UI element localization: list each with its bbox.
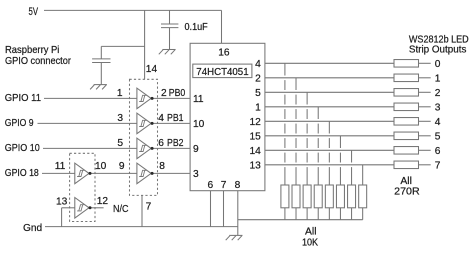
svg-text:7: 7 — [221, 180, 227, 191]
svg-text:12: 12 — [97, 196, 109, 207]
svg-text:5V: 5V — [29, 6, 39, 18]
svg-text:GPIO connector: GPIO connector — [5, 56, 71, 67]
svg-text:5: 5 — [255, 88, 261, 99]
svg-text:8: 8 — [235, 180, 241, 191]
svg-text:PB1: PB1 — [167, 113, 184, 124]
svg-text:10: 10 — [193, 119, 205, 130]
svg-text:6: 6 — [158, 138, 164, 149]
svg-text:74HCT4051: 74HCT4051 — [196, 67, 249, 78]
svg-text:GPIO 11: GPIO 11 — [5, 93, 41, 104]
svg-text:6: 6 — [207, 180, 213, 191]
svg-text:PB2: PB2 — [167, 138, 184, 149]
svg-text:10K: 10K — [302, 238, 318, 249]
svg-text:7: 7 — [435, 160, 441, 171]
svg-text:4: 4 — [255, 59, 261, 70]
svg-text:3: 3 — [435, 102, 441, 113]
svg-text:2: 2 — [255, 73, 261, 84]
svg-text:Strip Outputs: Strip Outputs — [409, 45, 467, 56]
svg-text:5: 5 — [117, 138, 123, 149]
svg-text:1: 1 — [117, 88, 123, 99]
svg-text:10: 10 — [95, 161, 107, 172]
svg-text:14: 14 — [249, 146, 261, 157]
svg-text:3: 3 — [193, 169, 199, 180]
svg-text:GPIO 18: GPIO 18 — [5, 168, 39, 179]
svg-text:N/C: N/C — [113, 204, 129, 215]
svg-text:13: 13 — [56, 197, 68, 208]
svg-text:Gnd: Gnd — [23, 223, 43, 234]
svg-text:270R: 270R — [394, 187, 420, 198]
svg-text:1: 1 — [255, 102, 261, 113]
svg-text:8: 8 — [159, 161, 165, 172]
svg-text:0.1uF: 0.1uF — [185, 22, 208, 33]
svg-text:11: 11 — [55, 161, 66, 172]
svg-text:12: 12 — [249, 117, 261, 128]
svg-text:All: All — [305, 227, 317, 238]
svg-text:6: 6 — [435, 146, 441, 157]
svg-text:PB0: PB0 — [169, 88, 186, 99]
svg-text:11: 11 — [193, 94, 204, 105]
svg-text:5: 5 — [435, 131, 441, 142]
svg-text:1: 1 — [435, 73, 441, 84]
svg-text:Raspberry Pi: Raspberry Pi — [5, 45, 59, 56]
svg-text:7: 7 — [146, 202, 152, 213]
svg-text:4: 4 — [158, 113, 164, 124]
svg-text:13: 13 — [249, 160, 261, 171]
svg-text:0: 0 — [435, 59, 441, 70]
svg-text:GPIO 9: GPIO 9 — [5, 118, 34, 129]
svg-text:16: 16 — [218, 48, 230, 59]
svg-text:GPIO 10: GPIO 10 — [5, 143, 40, 154]
svg-text:2: 2 — [161, 88, 167, 99]
svg-text:4: 4 — [435, 117, 441, 128]
svg-text:9: 9 — [119, 161, 125, 172]
svg-text:2: 2 — [435, 88, 441, 99]
svg-text:All: All — [400, 176, 412, 187]
svg-text:14: 14 — [146, 64, 158, 75]
svg-text:15: 15 — [249, 131, 261, 142]
svg-text:3: 3 — [117, 113, 123, 124]
svg-text:9: 9 — [193, 144, 199, 155]
